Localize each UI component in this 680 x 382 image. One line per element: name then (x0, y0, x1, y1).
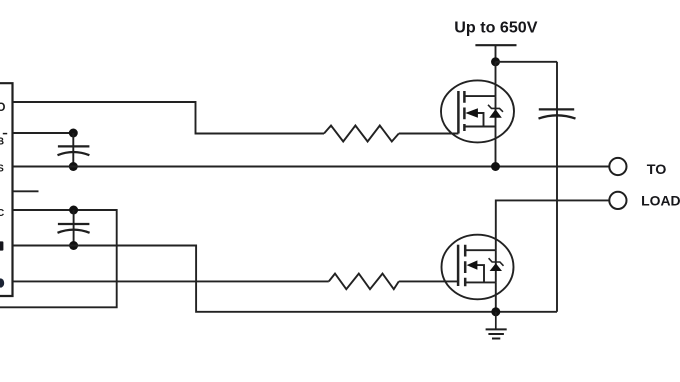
wire Q1 drain vertical (495, 62, 497, 96)
label TO (647, 162, 667, 177)
node switch node junction dot (491, 162, 500, 171)
label LOAD (641, 193, 680, 208)
label Up to 650V (454, 20, 538, 37)
node ground junction dot (491, 307, 500, 316)
wire VCC: pin right, down, off image left (0, 210, 117, 307)
wire COM: pin right, down, to ground rail (13, 246, 558, 312)
ground symbol (486, 312, 507, 339)
pin COM label (partial letter M block) (0, 241, 3, 250)
wire Q1 source to switch node (495, 127, 497, 167)
wire R2 to Q2 gate (399, 280, 458, 282)
pin LO label (partial letter, dark dot) (0, 278, 4, 287)
power supply bar 650V (475, 44, 516, 46)
node bus junction dot (491, 57, 500, 66)
wire LOAD terminal to Q2 drain (496, 200, 610, 250)
transistor Q1 (high-side MOSFET) (441, 80, 514, 142)
wire bus node to capacitor C3 (496, 61, 558, 63)
svg-text:TO: TO (647, 162, 667, 177)
resistor R1 (324, 126, 399, 142)
node VS-C1 junction dot (69, 162, 78, 171)
wire R1 to Q1 gate (399, 133, 459, 135)
node COM-C2 junction dot (69, 241, 78, 250)
svg-text:O: O (0, 102, 6, 114)
transistor Q2 (low-side MOSFET) (442, 235, 514, 300)
pin stub (unconnected pin) (13, 190, 39, 192)
pin VB label (partial letter B with dash) (0, 134, 7, 148)
pin HO label (partial letter O) (0, 102, 6, 114)
wire LO: pin to resistor R2 (13, 280, 329, 282)
capacitor C2 (VCC decoupling) (58, 210, 90, 246)
node VCC-C2 junction dot (69, 206, 78, 215)
node VB junction dot (69, 129, 78, 138)
wire VB: pin to bootstrap cap C1 (13, 132, 74, 134)
svg-text:LOAD: LOAD (641, 193, 680, 208)
terminal LOAD circle (609, 192, 626, 209)
svg-text:C: C (0, 208, 4, 219)
wire HO: pin to step-down to resistor R1 (13, 102, 325, 134)
wire supply bar to bus node (495, 45, 497, 62)
svg-text:S: S (0, 164, 4, 175)
capacitor C3 (bus cap) with vertical leads (556, 62, 558, 312)
pin VCC label (partial letter C) (0, 208, 4, 219)
wire VS: pin to TO terminal (switch node line) (13, 166, 610, 168)
terminal TO circle (609, 158, 626, 175)
svg-text:B: B (0, 137, 4, 148)
resistor R2 (329, 274, 399, 290)
IC U1 gate driver box (cut off at left edge) (0, 83, 13, 296)
svg-text:Up to 650V: Up to 650V (454, 20, 538, 37)
capacitor C1 (bootstrap, VB to VS) (58, 133, 90, 167)
wire Q2 source to ground rail (495, 282, 497, 311)
pin VS label (partial letter S) (0, 164, 4, 175)
